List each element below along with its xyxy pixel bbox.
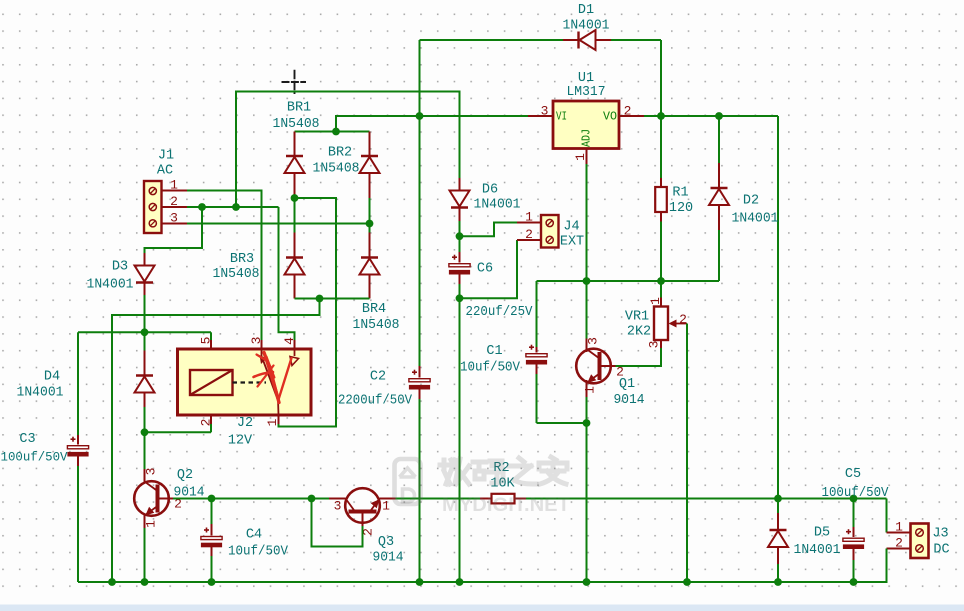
svg-text:12V: 12V (228, 433, 253, 448)
svg-text:D2: D2 (743, 193, 759, 208)
svg-text:10uf/50V: 10uf/50V (228, 544, 289, 559)
transistor Q3 9014 (329, 488, 404, 565)
svg-text:1: 1 (573, 153, 588, 161)
wire D1 right (611, 39, 661, 41)
junction J1.3/BR2 (366, 220, 374, 228)
wire D1 drop right (660, 40, 662, 116)
svg-text:1N4001: 1N4001 (17, 385, 64, 400)
svg-text:3: 3 (143, 468, 158, 476)
svg-text:100uf/50V: 100uf/50V (822, 486, 890, 501)
wire coil top net (78, 331, 211, 333)
junction VI/C2 (416, 112, 424, 120)
svg-text:2: 2 (895, 535, 903, 550)
op-amp U1 LM317 (553, 71, 619, 149)
junction C4 top (208, 495, 216, 503)
J3 pin 1 (887, 519, 911, 534)
relay pin 1 (265, 415, 280, 426)
relay pin 3 (249, 337, 264, 349)
junction VI/BR top (332, 128, 340, 136)
svg-text:D3: D3 (112, 259, 128, 274)
wire AC top loop (236, 92, 460, 208)
svg-text:1N4001: 1N4001 (474, 197, 521, 212)
svg-text:VR1: VR1 (625, 309, 649, 324)
watermark logo (395, 459, 421, 504)
svg-text:D5: D5 (814, 525, 830, 540)
svg-text:C1: C1 (486, 344, 502, 359)
wire Q2 collector (144, 432, 146, 469)
junction VO/D2 (715, 112, 723, 120)
svg-text:120: 120 (669, 201, 693, 216)
svg-text:2: 2 (624, 103, 632, 118)
connector J3 DC (911, 524, 950, 559)
svg-text:1: 1 (582, 386, 597, 394)
relay J2 12V (178, 349, 312, 448)
svg-text:C5: C5 (845, 467, 861, 482)
svg-text:5: 5 (198, 337, 213, 345)
svg-text:3: 3 (334, 498, 342, 513)
J1 pin 3 (162, 210, 188, 225)
svg-text:3: 3 (170, 210, 178, 225)
wire base net (173, 498, 329, 500)
wire Q1 base to VR1 (616, 348, 662, 366)
svg-text:3: 3 (646, 341, 661, 349)
potentiometer VR1 2K2 (625, 281, 687, 348)
svg-text:3: 3 (249, 337, 264, 345)
junction rail Q1e (583, 578, 591, 586)
svg-text:100uf/50V: 100uf/50V (1, 449, 68, 464)
svg-text:9014: 9014 (373, 550, 404, 565)
svg-text:2: 2 (525, 227, 533, 242)
junction D4/relay coil/Q2 (141, 428, 149, 436)
svg-text:1: 1 (648, 297, 663, 305)
junction VO/R1 (657, 112, 665, 120)
relay pin 2 (145, 415, 214, 432)
J4 pin 2 (517, 227, 541, 242)
diode BR3 1N5408 (213, 198, 305, 299)
svg-text:Q3: Q3 (378, 535, 394, 550)
wire Q3 to R2 (396, 498, 481, 500)
svg-text:BR1: BR1 (287, 100, 311, 115)
junction output/D5 (774, 495, 782, 503)
J4 pin 1 (517, 209, 541, 224)
wire D1 drop left (419, 40, 421, 116)
wire to J3 pin1 (886, 499, 888, 533)
wire output net (526, 498, 887, 500)
junction D6/J4 (456, 232, 464, 240)
U1 pin 3 VI (528, 103, 553, 118)
svg-text:BR2: BR2 (328, 145, 352, 160)
svg-text:Q1: Q1 (619, 377, 635, 392)
wire J1.2 (187, 206, 279, 208)
svg-text:AC: AC (157, 163, 173, 178)
junction rail Q2e (141, 578, 149, 586)
svg-text:220uf/25V: 220uf/25V (466, 305, 534, 320)
capacitor C3 100uf/50V (1, 332, 89, 582)
svg-text:MYDIGIT.NET: MYDIGIT.NET (442, 494, 570, 516)
svg-text:1N4001: 1N4001 (794, 543, 841, 558)
connector J4 EXT (541, 215, 584, 249)
svg-text:BR3: BR3 (230, 252, 254, 267)
svg-text:1N4001: 1N4001 (563, 18, 610, 33)
wire C1 bottom (537, 422, 587, 424)
junction rail C6 (456, 578, 464, 586)
capacitor C6 220uf/25V (449, 236, 533, 320)
junction output/C5 (850, 495, 858, 503)
svg-text:D4: D4 (44, 369, 60, 384)
relay red scribble annotation (254, 353, 292, 403)
bottom strip (0, 605, 964, 611)
svg-text:C6: C6 (477, 261, 493, 276)
cursor crosshair (282, 70, 307, 94)
diode BR2 1N5408 (313, 132, 380, 224)
diode D4 1N4001 (17, 332, 155, 432)
diode BR4 1N5408 (353, 224, 400, 333)
junction rail C5 (850, 578, 858, 586)
svg-text:D1: D1 (578, 3, 594, 18)
svg-text:D6: D6 (482, 182, 498, 197)
svg-text:3: 3 (585, 337, 600, 345)
svg-text:1: 1 (143, 520, 158, 528)
junction J1.2/D3 (198, 203, 206, 211)
resistor R2 10K (480, 461, 526, 503)
transistor Q1 9014 (576, 281, 644, 423)
wire J1.3 to bridge (187, 223, 370, 225)
junction ADJ/VR1 (657, 277, 665, 285)
svg-text:C2: C2 (370, 369, 386, 384)
svg-text:J4: J4 (563, 219, 579, 234)
svg-text:1: 1 (525, 209, 533, 224)
svg-text:3: 3 (541, 103, 549, 118)
junction rail VR1 (683, 578, 691, 586)
junction emitter/C1 (583, 419, 591, 427)
wire VI net (336, 116, 528, 132)
resistor R1 120 (655, 116, 693, 281)
wire ADJ down (586, 164, 588, 281)
svg-text:2: 2 (198, 419, 213, 427)
svg-text:C4: C4 (246, 527, 262, 542)
wire J4 pin2 return (460, 240, 518, 298)
wire Q1 emitter to rail (586, 423, 588, 582)
svg-text:ADJ: ADJ (579, 129, 593, 147)
wire J1.1 to relay pin3 (187, 191, 262, 341)
svg-text:J1: J1 (158, 148, 174, 163)
diode D5 1N4001 (768, 499, 841, 583)
svg-text:LM317: LM317 (567, 85, 606, 100)
transistor Q2 9014 (134, 468, 204, 528)
svg-text:2: 2 (679, 312, 687, 327)
diode D6 1N4001 (450, 178, 521, 236)
relay pin 5 (198, 332, 213, 349)
wire Q2 emitter to rail (144, 528, 146, 582)
wire Q3 emitter return (312, 499, 363, 547)
svg-text:C3: C3 (19, 432, 35, 447)
junction D3/coil (141, 328, 149, 336)
svg-text:1: 1 (265, 418, 280, 426)
watermark text shuma zhijia (440, 457, 567, 484)
connector J1 (144, 148, 174, 233)
junction rail D5 (774, 578, 782, 586)
wire VR1 wiper down (686, 324, 688, 583)
svg-text:J2: J2 (237, 416, 253, 431)
svg-text:2K2: 2K2 (627, 324, 651, 339)
svg-text:1: 1 (170, 177, 178, 192)
wire J1.2 down to D3 (145, 207, 203, 253)
svg-text:1N4001: 1N4001 (87, 277, 134, 292)
wire ADJ to C1 (536, 281, 538, 347)
svg-text:1N5408: 1N5408 (213, 267, 260, 282)
relay pin 4 (279, 207, 297, 349)
capacitor C1 10uf/50V (460, 344, 547, 423)
wire bridge negative (112, 299, 370, 583)
diode BR1 1N5408 (273, 100, 320, 198)
svg-text:1N5408: 1N5408 (353, 318, 400, 333)
capacitor C2 2200uf/50V (338, 116, 430, 582)
svg-text:U1: U1 (578, 71, 594, 86)
svg-text:R1: R1 (672, 185, 688, 200)
wire VO right drop (777, 116, 779, 499)
diode D3 1N4001 (87, 253, 155, 332)
svg-text:9014: 9014 (614, 393, 645, 408)
wire ground rail (78, 549, 887, 583)
wire to J4 pin1 (460, 223, 518, 237)
junction bridge negative (316, 295, 324, 303)
U1 pin 1 ADJ (573, 149, 588, 165)
junction BR1 anode (291, 194, 299, 202)
svg-text:VO: VO (603, 109, 617, 123)
wire BR1-BR2 top (295, 131, 370, 133)
svg-text:1N5408: 1N5408 (313, 161, 360, 176)
wire C6 bottom to rail (459, 298, 461, 582)
junction Q3 feedback (308, 495, 316, 503)
svg-text:2: 2 (170, 194, 178, 209)
junction ADJ (583, 277, 591, 285)
svg-text:DC: DC (933, 542, 949, 557)
wire ADJ net horizontal (537, 280, 720, 282)
svg-text:10uf/50V: 10uf/50V (460, 360, 521, 375)
svg-text:Q2: Q2 (177, 468, 193, 483)
svg-text:VI: VI (556, 109, 567, 123)
capacitor C4 10uf/50V (201, 499, 289, 583)
svg-text:BR4: BR4 (362, 302, 386, 317)
junction rail neg (108, 578, 116, 586)
svg-text:2200uf/50V: 2200uf/50V (338, 393, 413, 408)
svg-text:1N4001: 1N4001 (732, 211, 779, 226)
junction rail C2 (416, 578, 424, 586)
junction rail C4 (208, 578, 216, 586)
J1 pin 1 (162, 177, 188, 192)
wire BR1 anode to relay NC (279, 198, 337, 427)
svg-text:EXT: EXT (560, 234, 584, 249)
wire VO net (644, 115, 778, 117)
capacitor C5 100uf/50V (822, 467, 890, 582)
J3 pin 2 (887, 535, 911, 550)
svg-text:J3: J3 (932, 526, 948, 541)
svg-text:4: 4 (282, 337, 297, 345)
svg-text:1N5408: 1N5408 (273, 117, 320, 132)
wire D1 left (420, 39, 564, 41)
junction J1.2/up (232, 203, 240, 211)
diode D1 1N4001 (563, 3, 612, 50)
svg-text:1: 1 (382, 498, 390, 513)
junction C6 bottom (456, 294, 464, 302)
U1 pin 2 VO (619, 103, 644, 118)
J1 pin 2 (162, 194, 188, 209)
svg-text:1: 1 (895, 519, 903, 534)
diode D2 1N4001 (709, 116, 779, 281)
